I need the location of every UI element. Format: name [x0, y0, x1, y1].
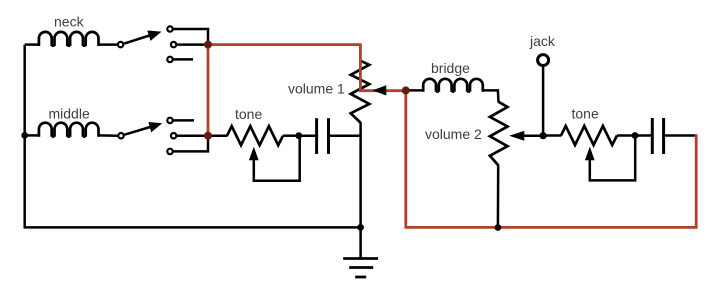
switch pole middle (common): [118, 133, 123, 138]
wire: middle pickup right lead: [98, 134, 118, 137]
wire: junction to bridge pickup: [406, 89, 424, 92]
wire: ground stem: [359, 227, 362, 258]
wire: neck pickup left lead: [25, 43, 40, 46]
svg-text:middle: middle: [49, 106, 90, 122]
wire: junction to cap 2: [635, 134, 652, 137]
capacitor C2 plate left: [651, 118, 654, 154]
junction node: tone 1 / cap 1: [295, 132, 302, 139]
svg-text:neck: neck: [54, 14, 85, 30]
wire: middle contact 2 to junction: [177, 134, 207, 137]
potentiometer volume 2 resistor body: [490, 102, 508, 166]
switch lever neck: [124, 35, 152, 44]
wire: tone 2 wiper loop: [590, 138, 635, 180]
junction node: volume 1 wiper / bridge (red): [402, 86, 410, 94]
svg-text:tone: tone: [235, 106, 262, 122]
tone 1 wiper arrowhead: [249, 147, 259, 161]
svg-text:volume 2: volume 2: [425, 126, 482, 142]
switch neck contact 1: [167, 26, 172, 31]
svg-text:volume 1: volume 1: [288, 81, 345, 97]
wire: junction to cap 1: [299, 134, 317, 137]
switch middle contact 1 stub: [167, 118, 172, 123]
wire: cap 1 to volume 1 bottom leg: [329, 134, 361, 137]
svg-text:tone: tone: [572, 106, 599, 122]
tone 2 wiper arrowhead: [585, 147, 595, 161]
inductor neck pickup: [39, 32, 99, 46]
resistor tone 1: [227, 126, 283, 145]
wire: volume 1 bottom leg to ground bus: [359, 122, 362, 227]
volume 1 wiper arrowhead: [372, 85, 386, 95]
junction node: tone 2 / cap 2: [632, 132, 639, 139]
junction node: middle switch output (red): [204, 132, 212, 140]
potentiometer volume 1 resistor body: [351, 61, 370, 123]
junction node: neck switch output (red): [204, 41, 212, 49]
wire: cap 2 to red return: [664, 134, 696, 137]
switch pole neck (common): [118, 42, 123, 47]
wire: tone 1 resistor to cap junction: [283, 134, 299, 137]
wire: left rail: [23, 45, 26, 228]
wire: jack stem: [542, 67, 545, 136]
junction node: jack / volume 2 wiper / tone 2: [540, 132, 547, 139]
jack tip terminal: [538, 55, 549, 66]
wire: junction to tone 1 resistor: [209, 134, 228, 137]
wire: middle pickup left lead: [25, 134, 40, 137]
wire: volume 2 bottom leg to red ground loop: [497, 165, 500, 227]
switch lever middle: [124, 126, 153, 135]
switch lever neck arrowhead: [147, 31, 161, 41]
junction node: ground bus / volume 1 leg: [357, 224, 364, 231]
wire: neck contact 1 to output junction: [173, 29, 208, 42]
capacitor C1 plate left: [315, 118, 318, 154]
capacitor C2 plate right: [662, 118, 665, 154]
svg-text:jack: jack: [529, 33, 556, 49]
wire: bridge pickup to volume 2 top: [482, 90, 498, 102]
junction node: middle pickup to left rail: [21, 132, 28, 139]
wire: neck contact 3 stub: [173, 58, 193, 61]
wire: jack node to tone 2 resistor: [543, 134, 561, 137]
wire: bottom ground bus: [24, 226, 361, 229]
wire: volume 2 wiper to jack node: [523, 135, 543, 138]
inductor middle pickup: [39, 123, 99, 137]
wire: neck contact 2 to output junction: [177, 43, 207, 46]
volume 2 wiper arrowhead: [509, 131, 524, 141]
switch lever middle arrowhead: [148, 122, 162, 132]
junction node: volume 2 bottom on red loop: [495, 224, 502, 231]
switch middle contact 3: [167, 149, 172, 154]
ground symbol: [343, 259, 378, 278]
capacitor C1 plate right: [327, 118, 330, 154]
wire: middle contact 3 up to junction: [173, 138, 208, 151]
switch neck contact 2: [171, 42, 176, 47]
switch neck contact 3 stub: [167, 57, 172, 62]
wire: tone 2 resistor to cap junction: [617, 134, 635, 137]
resistor tone 2: [561, 126, 617, 145]
wire: tone 1 wiper loop: [254, 138, 300, 181]
svg-text:bridge: bridge: [431, 60, 470, 76]
inductor bridge pickup: [423, 79, 483, 92]
wire red: switch output to volume 1 top and wiper feed: [209, 45, 406, 91]
wire red: neck switch junction down to middle switch junction: [207, 45, 210, 136]
switch middle contact 2: [171, 133, 176, 138]
wire red: volume 1 wiper node down, along bottom, up to cap 2 output: [406, 90, 696, 227]
wire: neck pickup right lead: [98, 43, 118, 46]
wire: middle contact 1 stub: [173, 119, 194, 122]
